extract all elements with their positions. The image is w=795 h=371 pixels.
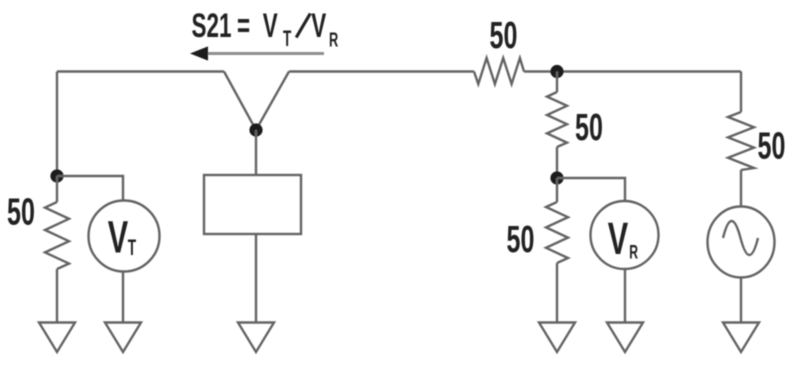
svg-text:V: V bbox=[263, 8, 279, 46]
resistor 50 lower shunt bbox=[546, 202, 568, 263]
node junction left bbox=[50, 169, 63, 182]
wire bus to series resistor bbox=[289, 70, 474, 72]
wire node to lower shunt resistor bbox=[556, 178, 558, 202]
resistor 50 source bbox=[728, 112, 754, 170]
svg-text:V: V bbox=[108, 213, 129, 263]
wire upper shunt resistor to node bbox=[556, 147, 558, 178]
wire right corner down to source resistor bbox=[740, 72, 742, 113]
svg-text:R: R bbox=[329, 29, 338, 52]
svg-text:R: R bbox=[629, 243, 638, 263]
label S21 = VT/VR bbox=[192, 8, 339, 52]
meter VR bbox=[591, 201, 659, 269]
ground DUT bbox=[238, 323, 274, 353]
svg-text:50: 50 bbox=[7, 190, 35, 232]
svg-text:V: V bbox=[311, 8, 327, 46]
ground VR meter bbox=[607, 323, 643, 353]
resistor 50 series bbox=[474, 58, 524, 84]
svg-text:50: 50 bbox=[490, 14, 518, 56]
svg-text:50: 50 bbox=[575, 106, 603, 148]
wire lower shunt resistor to ground bbox=[556, 263, 558, 322]
svg-text:=: = bbox=[237, 8, 250, 46]
ground VT meter bbox=[105, 323, 141, 353]
node junction bus bbox=[550, 65, 563, 78]
wire main bus left segment bbox=[57, 70, 224, 72]
svg-text:S21: S21 bbox=[192, 8, 232, 46]
wire source resistor to source bbox=[740, 170, 742, 207]
arrow signal direction bbox=[190, 46, 324, 60]
wire VT meter to ground bbox=[122, 272, 124, 323]
svg-text:50: 50 bbox=[507, 218, 535, 260]
ground left resistor bbox=[39, 323, 75, 353]
source generator sine bbox=[708, 207, 775, 278]
resistor 50 shunt left bbox=[45, 202, 69, 269]
ground lower shunt resistor bbox=[539, 323, 575, 353]
wire left resistor to ground bbox=[56, 269, 58, 322]
wire source to ground bbox=[740, 277, 742, 322]
svg-text:T: T bbox=[283, 26, 291, 51]
wire node to right corner bbox=[557, 70, 741, 72]
ground source bbox=[723, 323, 759, 353]
svg-text:V: V bbox=[608, 214, 629, 264]
node junction VR tap bbox=[550, 171, 563, 184]
svg-text:T: T bbox=[128, 234, 136, 259]
node junction tap bbox=[249, 123, 262, 136]
wire node to left resistor bbox=[56, 176, 58, 202]
wire tap node to DUT bbox=[255, 130, 257, 175]
wire DUT to ground bbox=[255, 234, 257, 322]
wire V-dip to tap node bbox=[224, 72, 289, 131]
meter VT bbox=[89, 201, 160, 272]
wire bus node to upper shunt resistor bbox=[556, 72, 558, 93]
DUT block bbox=[204, 175, 301, 234]
wire series resistor to node bbox=[524, 70, 557, 72]
resistor 50 upper shunt bbox=[547, 92, 567, 147]
wire VR meter to ground bbox=[624, 270, 626, 323]
wire left branch vertical bbox=[56, 72, 58, 177]
wire node to VR meter bbox=[557, 178, 625, 200]
svg-text:50: 50 bbox=[758, 124, 786, 166]
wire node to VT meter bbox=[57, 176, 123, 201]
